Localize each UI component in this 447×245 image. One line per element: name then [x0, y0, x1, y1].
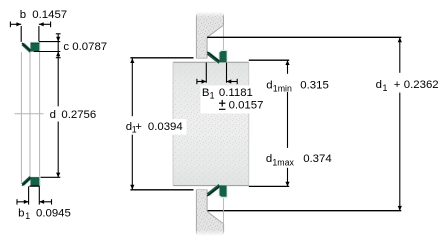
mounted seal bottom halo [219, 186, 228, 199]
top seal body [31, 43, 40, 52]
bottom seal body [31, 177, 40, 186]
wall bore edge extension [222, 25, 224, 51]
svg-text:0.0945: 0.0945 [36, 207, 71, 219]
dimension d [57, 52, 59, 107]
housing wall top [196, 13, 223, 59]
shaft [173, 62, 249, 185]
bottom seal base line [29, 185, 39, 187]
seal bore surface line left [20, 52, 22, 184]
svg-text:0.1457: 0.1457 [32, 9, 67, 21]
dimension d1min / d1max line [285, 60, 289, 65]
svg-text:1min: 1min [273, 84, 292, 94]
svg-text:d: d [266, 153, 272, 165]
svg-text:B: B [202, 87, 210, 99]
wall bottom face line / d1+ top attach [130, 57, 193, 59]
mounted seal bottom body [220, 186, 227, 197]
svg-text:0.0787: 0.0787 [72, 41, 107, 53]
mounted seal top body [220, 51, 227, 62]
svg-text:0.1181: 0.1181 [219, 87, 253, 99]
svg-text:0.0394: 0.0394 [148, 121, 183, 133]
bottom seal halo [30, 177, 41, 187]
svg-text:d: d [376, 79, 382, 91]
dimension b1 [28, 186, 30, 204]
mounted seal bottom lip [208, 185, 220, 194]
svg-text:d: d [50, 109, 56, 121]
dimension d1 [398, 37, 402, 42]
dimension B1 [205, 63, 207, 83]
top seal halo [30, 42, 41, 52]
d1+ bottom attach line [130, 189, 193, 191]
seal bore surface line middle [29, 52, 31, 177]
svg-text:0.0157: 0.0157 [229, 100, 264, 112]
d1 top attach line [207, 36, 401, 38]
seal bore surface line right [39, 52, 41, 178]
svg-text:b: b [18, 207, 24, 219]
plus-minus symbol [219, 102, 225, 104]
label background boxes [201, 86, 262, 114]
svg-text:c: c [63, 41, 69, 53]
svg-text:1: 1 [383, 83, 388, 93]
svg-text:1max: 1max [272, 158, 294, 168]
housing wall bottom [196, 190, 223, 236]
mounted seal top lip [208, 53, 220, 62]
svg-text:0.315: 0.315 [300, 79, 329, 91]
svg-text:0.374: 0.374 [303, 153, 332, 165]
wall bore edge extension bottom [222, 197, 224, 224]
dimension d1+ [130, 58, 134, 63]
d1min top attach line [249, 59, 289, 61]
svg-text:0.2756: 0.2756 [61, 109, 96, 121]
dimension b [9, 22, 11, 28]
centerline [15, 113, 44, 115]
d1max bottom attach line [249, 185, 289, 187]
svg-text:1: 1 [210, 91, 215, 101]
top seal lip [23, 44, 31, 52]
bottom seal lip [23, 177, 31, 185]
d1 bottom attach line [207, 210, 401, 212]
svg-text:+: + [394, 79, 401, 91]
svg-text:0.2362: 0.2362 [404, 79, 439, 91]
svg-text:1: 1 [25, 211, 30, 221]
svg-text:b: b [20, 9, 26, 21]
mounted seal top halo [219, 50, 228, 63]
svg-text:+: + [135, 121, 142, 133]
svg-text:d: d [266, 79, 272, 91]
dimension c [39, 41, 60, 43]
